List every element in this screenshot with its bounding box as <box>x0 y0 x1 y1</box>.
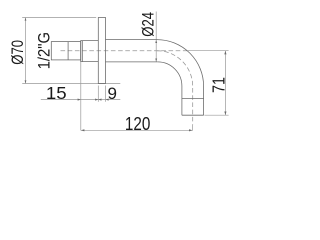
svg-text:Ø24: Ø24 <box>140 12 158 37</box>
svg-text:71: 71 <box>209 77 229 93</box>
svg-text:Ø70: Ø70 <box>10 40 28 65</box>
svg-text:120: 120 <box>125 113 150 134</box>
svg-text:9: 9 <box>108 84 117 103</box>
svg-text:1/2"G: 1/2"G <box>36 32 54 69</box>
svg-text:15: 15 <box>46 84 67 103</box>
